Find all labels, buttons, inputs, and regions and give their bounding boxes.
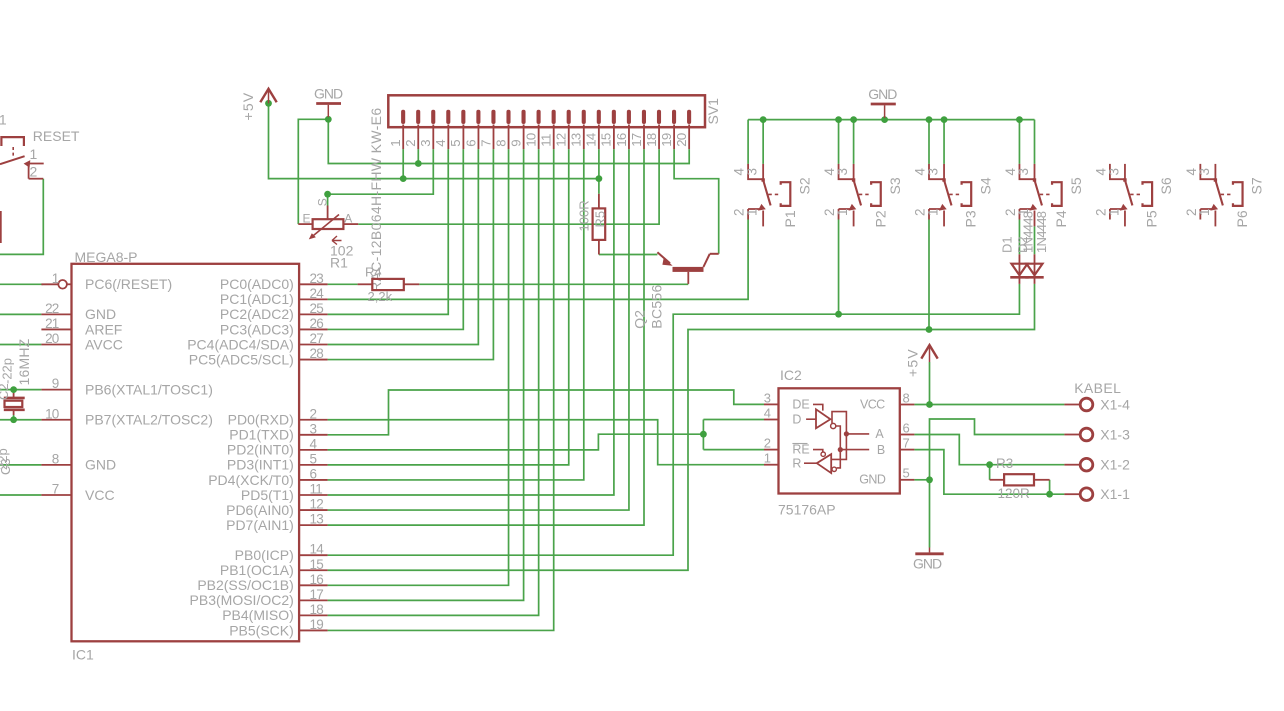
svg-text:X1-1: X1-1 [1100, 486, 1130, 502]
svg-text:A: A [875, 427, 884, 441]
junction SV1 pin1 +5V [400, 175, 407, 182]
wire net Q2 emitter from R5 [599, 254, 658, 256]
wire net PB1 to button row2 and diode D2 [328, 284, 1035, 570]
svg-text:AREF: AREF [85, 321, 122, 337]
svg-text:R4: R4 [365, 265, 382, 280]
wire button riser at x=839 [838, 120, 840, 164]
wire crystal stubs [13, 390, 15, 393]
svg-text:IC1: IC1 [72, 647, 94, 663]
svg-text:8: 8 [903, 390, 910, 405]
wire net V0: R1 wiper to SV1 pin3 [328, 149, 434, 194]
svg-text:PB3(MOSI/OC2): PB3(MOSI/OC2) [190, 592, 294, 608]
wire net XTAL1 [0, 389, 41, 391]
svg-text:12: 12 [554, 133, 569, 147]
svg-text:GND: GND [85, 457, 116, 473]
svg-text:3: 3 [1106, 168, 1121, 176]
left-edge cut wire fragment [0, 211, 2, 243]
svg-text:1: 1 [1197, 208, 1212, 216]
svg-text:PB4(MISO): PB4(MISO) [222, 607, 294, 623]
svg-text:28: 28 [310, 346, 324, 361]
svg-text:PC3(ADC3): PC3(ADC3) [220, 321, 294, 337]
diode D2 1N4448 [1034, 254, 1036, 284]
svg-text:1: 1 [835, 208, 850, 216]
wire net R4 to Q2 base [419, 283, 688, 285]
junction R3/B net [1046, 491, 1053, 498]
resistor R4 2,2k [358, 283, 373, 285]
svg-text:S6: S6 [1158, 177, 1174, 194]
wire R3 right branch to X1-1 [1049, 480, 1051, 494]
svg-text:17: 17 [629, 133, 644, 147]
svg-text:8: 8 [52, 451, 59, 466]
svg-text:PC4(ADC4/SDA): PC4(ADC4/SDA) [187, 336, 294, 352]
IC2 internal driver triangle [813, 404, 823, 410]
junction XTAL2 [10, 416, 17, 423]
svg-text:8: 8 [493, 140, 508, 147]
transistor Q2 BC556 (PNP) [657, 252, 670, 263]
wire IC1 left pin rows from edge: GND,AVCC,GND,VCC [0, 313, 41, 315]
svg-text:KABEL: KABEL [1074, 380, 1121, 396]
svg-text:GND: GND [314, 85, 343, 101]
svg-text:P6: P6 [1234, 210, 1250, 227]
svg-text:S: S [316, 198, 330, 206]
wire net GND at IC2 pin5, to X1-3 and ground [914, 479, 929, 481]
svg-text:E: E [303, 212, 311, 226]
junction D/RE branch [700, 431, 707, 438]
svg-text:4: 4 [433, 140, 448, 147]
svg-text:10: 10 [523, 133, 538, 147]
svg-text:19: 19 [310, 617, 324, 632]
wire net A: IC2 pin6 to X1-2 [914, 435, 1064, 465]
svg-text:PC5(ADC5/SCL): PC5(ADC5/SCL) [189, 351, 294, 367]
trimmer R1 102 [327, 206, 329, 220]
wire net PB2 to SV1 pin8 [328, 149, 509, 585]
svg-text:3: 3 [835, 168, 850, 176]
svg-text:12: 12 [310, 497, 324, 512]
svg-text:20: 20 [45, 331, 59, 346]
wire R5 top riser [598, 179, 600, 194]
junction +5V feed [265, 100, 272, 107]
svg-text:X1-3: X1-3 [1100, 426, 1130, 442]
svg-text:B: B [877, 443, 885, 457]
svg-text:4: 4 [764, 405, 771, 420]
pad X1-4 [1064, 404, 1079, 406]
IC1 left pin stubs [41, 283, 58, 285]
junction GND stem [881, 116, 888, 123]
svg-text:1: 1 [764, 451, 771, 466]
junction VCC/X1-4 [926, 401, 933, 408]
svg-text:S1: S1 [0, 112, 7, 128]
IC2 internal receiver triangle [813, 450, 823, 452]
switch S2 / P1 [748, 164, 763, 179]
svg-text:22: 22 [45, 301, 59, 316]
wire switch P3 bottom to row2 [928, 220, 930, 330]
svg-text:7: 7 [52, 482, 59, 497]
wire net PC0 to R4 [328, 283, 358, 285]
wire R3 left branch from net A [989, 465, 991, 480]
wire net PD2/INT0 to IC2 D and RE [328, 434, 704, 450]
wire net PD6 to SV1 pin16 [328, 149, 629, 510]
svg-text:PC6(/RESET): PC6(/RESET) [85, 276, 172, 292]
svg-text:9: 9 [508, 140, 523, 147]
svg-text:D: D [792, 413, 801, 427]
svg-text:SV1: SV1 [705, 98, 721, 125]
wire net PC2 to SV1 pin4 [328, 149, 449, 314]
wire net VCC at IC2 pin8 to X1-4 and +5V [914, 404, 1064, 406]
svg-text:26: 26 [310, 316, 324, 331]
svg-text:PB1(OC1A): PB1(OC1A) [220, 562, 294, 578]
wire net Q2 collector to SV1 pin19 [674, 149, 719, 254]
svg-text:1: 1 [388, 140, 403, 147]
junction R3/A net [986, 461, 993, 468]
switch S1 RESET (partially cut at left edge) [1, 137, 24, 146]
svg-text:1: 1 [52, 271, 59, 286]
svg-text:DE: DE [792, 397, 809, 411]
svg-text:PB6(XTAL1/TOSC1): PB6(XTAL1/TOSC1) [85, 381, 213, 397]
wire net GND top-left: stem, branch to R1-E, rail to SV1 pin2/pin20 [328, 117, 689, 163]
svg-text:2: 2 [310, 406, 317, 421]
svg-text:+5V: +5V [240, 92, 256, 121]
wire net PD0/RXD to IC2 R [328, 420, 764, 465]
svg-text:1N4448: 1N4448 [1034, 211, 1049, 253]
svg-text:19: 19 [659, 133, 674, 147]
svg-text:9: 9 [52, 376, 59, 391]
IC1 right pin stubs [299, 283, 328, 285]
svg-text:1: 1 [1106, 208, 1121, 216]
wire net PB4 to SV1 pin10 [328, 149, 539, 615]
svg-text:7: 7 [903, 436, 910, 451]
pad X1-1 [1064, 493, 1079, 495]
IC U1 MEGA8-P box [72, 264, 300, 642]
svg-text:MEGA8-P: MEGA8-P [75, 249, 138, 265]
svg-text:5: 5 [448, 140, 463, 147]
svg-text:AVCC: AVCC [85, 336, 123, 352]
svg-text:X1-2: X1-2 [1100, 457, 1130, 473]
ground GND (above buttons) [871, 103, 896, 106]
svg-text:IC2: IC2 [780, 367, 802, 383]
wire net XTAL2 [0, 419, 41, 421]
pad X1-3 [1064, 434, 1079, 436]
svg-text:13: 13 [569, 133, 584, 147]
wire button riser at x=1019 [1018, 120, 1020, 164]
svg-text:PB7(XTAL2/TOSC2): PB7(XTAL2/TOSC2) [85, 412, 213, 428]
svg-text:X1-4: X1-4 [1100, 396, 1130, 412]
svg-text:3: 3 [418, 140, 433, 147]
supply +5V (at IC2) [921, 345, 937, 359]
connector SV1 box [388, 95, 705, 127]
wire net PB3 to SV1 pin9 [328, 149, 524, 600]
svg-text:21: 21 [45, 316, 59, 331]
junction S4 pin4 GND [926, 116, 933, 123]
IC IC2 75176AP box [779, 388, 900, 493]
wire net PD1/TXD to IC2 DE [328, 390, 764, 435]
wire net PD7 to SV1 pin17 [328, 149, 644, 525]
crystal Q1 16MHZ with 22p caps (cut at left edge) [13, 393, 15, 398]
svg-text:GND: GND [868, 86, 897, 102]
junction S5 pin4 GND [1016, 116, 1023, 123]
svg-text:R3: R3 [996, 456, 1013, 471]
svg-text:P5: P5 [1144, 210, 1160, 227]
svg-text:PB5(SCK): PB5(SCK) [229, 622, 294, 638]
svg-text:18: 18 [644, 133, 659, 147]
wire net +5V rail to SV1 pin1/pin14 [269, 103, 599, 178]
junction P2 on row1 [835, 311, 842, 318]
wire net PC5 to SV1 pin7 [328, 149, 494, 359]
svg-text:D1: D1 [1000, 236, 1015, 253]
svg-text:120R: 120R [998, 486, 1031, 501]
wire net PB0 to button row1 and diode D1 [328, 284, 1020, 555]
svg-text:S7: S7 [1249, 177, 1265, 194]
wire SV1 pin1 riser [402, 149, 404, 179]
svg-text:15: 15 [310, 557, 324, 572]
svg-text:1: 1 [745, 208, 760, 216]
ground GND (top left) [316, 102, 341, 105]
svg-text:VCC: VCC [860, 397, 885, 411]
svg-text:2: 2 [764, 436, 771, 451]
svg-text:17: 17 [310, 587, 324, 602]
svg-text:11: 11 [310, 482, 323, 497]
svg-text:PC0(ADC0): PC0(ADC0) [220, 276, 294, 292]
svg-text:BC556: BC556 [649, 284, 665, 328]
svg-text:PD0(RXD): PD0(RXD) [228, 412, 294, 428]
wire GND rail over buttons S2-S5 [748, 119, 1034, 121]
ground GND (below IC2) [929, 548, 931, 553]
svg-text:P4: P4 [1053, 210, 1069, 227]
svg-text:PD1(TXD): PD1(TXD) [229, 427, 294, 443]
svg-text:S5: S5 [1068, 177, 1084, 194]
svg-text:5: 5 [310, 451, 317, 466]
connector SV1 pads and pins [401, 110, 405, 124]
svg-text:3: 3 [745, 168, 760, 176]
svg-text:RE: RE [792, 442, 809, 456]
svg-text:P1: P1 [782, 210, 798, 227]
switch S7 / P6 [1200, 164, 1215, 179]
junction GND feed [325, 116, 332, 123]
junction S4 pin3 GND [941, 116, 948, 123]
resistor R5 100R [598, 194, 600, 209]
diode D1 1N4448 [1018, 254, 1020, 284]
junction R1 wiper [324, 191, 331, 198]
wire switch P4 pin2 to diode D1 anode [1018, 220, 1020, 255]
svg-text:16: 16 [614, 133, 629, 147]
svg-text:3: 3 [310, 421, 317, 436]
svg-text:S3: S3 [887, 177, 903, 194]
svg-text:3: 3 [764, 390, 771, 405]
svg-text:PD6(AIN0): PD6(AIN0) [226, 502, 294, 518]
svg-text:PD7(AIN1): PD7(AIN1) [226, 517, 294, 533]
switch S4 / P3 [929, 164, 944, 179]
svg-text:75176AP: 75176AP [778, 501, 836, 517]
svg-text:23: 23 [310, 271, 324, 286]
wire net PD4 to SV1 pin13 [328, 149, 584, 480]
switch S3 / P2 [839, 164, 854, 179]
junction SV1 pin2 GND [415, 160, 422, 167]
svg-text:PD5(T1): PD5(T1) [241, 487, 294, 503]
svg-text:1: 1 [926, 208, 941, 216]
junction S2 pin3 GND [760, 116, 767, 123]
resistor R3 120R [990, 479, 1005, 481]
svg-text:2: 2 [30, 164, 38, 180]
wire net PC1 to switch P1 [328, 220, 748, 300]
junction R5 top +5V [596, 175, 603, 182]
wire SV1 pin2 riser to GND [417, 149, 419, 163]
svg-text:1: 1 [30, 146, 38, 162]
wire net PB5 to SV1 pin11 [328, 149, 554, 630]
svg-text:20: 20 [674, 133, 689, 147]
svg-text:2: 2 [403, 140, 418, 147]
wire net PC6/RESET from left edge [0, 283, 43, 285]
junction S3 pin3 GND [850, 116, 857, 123]
junction P3 on row2 [926, 326, 933, 333]
svg-text:18: 18 [310, 602, 324, 617]
svg-text:PB2(SS/OC1B): PB2(SS/OC1B) [197, 577, 293, 593]
wire switch P4 pin1 to diode D2 anode [1034, 226, 1036, 254]
wire net PD3 to SV1 pin12 [328, 149, 569, 465]
svg-text:R: R [792, 457, 801, 471]
svg-text:PC2(ADC2): PC2(ADC2) [220, 306, 294, 322]
svg-text:6: 6 [463, 140, 478, 147]
svg-text:PD2(INT0): PD2(INT0) [227, 442, 294, 458]
wire button riser at x=929 [928, 120, 930, 164]
svg-text:Q2: Q2 [632, 310, 648, 329]
svg-text:C3: C3 [0, 458, 13, 475]
wire SV1 pin14 riser [598, 149, 600, 179]
junction IC2 GND [926, 476, 933, 483]
wire net PC3 to SV1 pin5 [328, 149, 464, 329]
svg-text:16MHZ: 16MHZ [16, 338, 32, 385]
svg-text:7: 7 [478, 140, 493, 147]
wire net R1-A to SV1 pin18 [358, 149, 659, 224]
svg-text:2,2k: 2,2k [368, 289, 393, 304]
svg-text:14: 14 [310, 542, 325, 557]
svg-text:13: 13 [310, 512, 324, 527]
IC2 pin stubs [764, 403, 779, 405]
svg-text:RESET: RESET [33, 128, 80, 144]
svg-text:S4: S4 [977, 177, 993, 194]
wire net RESET: S1 pin2 loop [0, 179, 43, 255]
wire net PD5 to SV1 pin15 [328, 149, 614, 495]
svg-text:100R: 100R [577, 200, 592, 231]
svg-text:3: 3 [926, 168, 941, 176]
svg-text:3: 3 [1016, 168, 1031, 176]
wire net PC4 to SV1 pin6 [328, 149, 479, 344]
svg-text:25: 25 [310, 301, 324, 316]
svg-text:PD3(INT1): PD3(INT1) [227, 457, 294, 473]
svg-text:15: 15 [599, 133, 614, 147]
svg-text:GND: GND [859, 473, 886, 487]
svg-text:14: 14 [584, 133, 599, 147]
wire button riser at x=748 [747, 120, 749, 164]
svg-text:PB0(ICP): PB0(ICP) [235, 547, 294, 563]
svg-text:11: 11 [539, 134, 554, 147]
svg-text:-22p: -22p [0, 358, 15, 384]
svg-text:6: 6 [903, 420, 910, 435]
svg-text:GND: GND [85, 306, 116, 322]
svg-text:S2: S2 [796, 177, 812, 194]
svg-text:5: 5 [903, 466, 910, 481]
svg-text:R5: R5 [593, 211, 608, 228]
switch S6 / P5 [1110, 164, 1125, 179]
wire switch P2 bottom to row1 [838, 220, 840, 315]
svg-text:24: 24 [310, 286, 325, 301]
supply +5V (top left) [260, 89, 276, 103]
svg-text:VCC: VCC [85, 487, 115, 503]
svg-text:A: A [344, 212, 352, 226]
svg-text:PC1(ADC1): PC1(ADC1) [220, 291, 294, 307]
svg-text:6: 6 [310, 466, 317, 481]
switch S5 / P4 [1019, 164, 1034, 179]
wire net B: IC2 pin7 to X1-1 [914, 450, 1064, 495]
svg-text:16: 16 [310, 572, 324, 587]
junction S3 pin4 GND [835, 116, 842, 123]
pad X1-2 [1064, 464, 1079, 466]
svg-text:3: 3 [1197, 168, 1212, 176]
svg-text:R1: R1 [330, 254, 348, 270]
svg-text:GND: GND [913, 556, 942, 572]
svg-text:PD4(XCK/T0): PD4(XCK/T0) [208, 472, 294, 488]
svg-text:+5V: +5V [905, 348, 921, 377]
junction XTAL1 [10, 386, 17, 393]
svg-text:P2: P2 [872, 210, 888, 227]
svg-text:10: 10 [45, 406, 59, 421]
svg-text:P3: P3 [963, 210, 979, 227]
svg-text:C2: C2 [0, 383, 11, 400]
svg-text:27: 27 [310, 331, 324, 346]
